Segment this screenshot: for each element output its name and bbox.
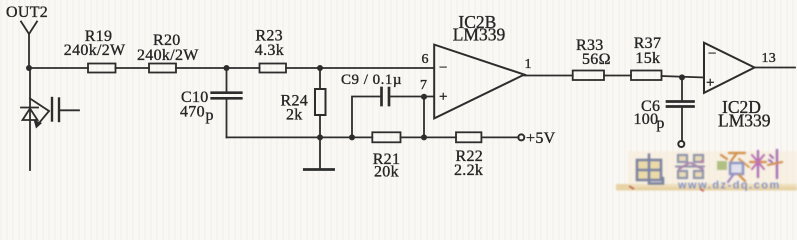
svg-text:LM339: LM339: [453, 25, 506, 45]
svg-text:LM339: LM339: [718, 111, 771, 131]
svg-text:4.3k: 4.3k: [255, 42, 284, 59]
svg-text:1: 1: [525, 57, 532, 72]
svg-text:13: 13: [762, 51, 777, 66]
svg-text:www.dz-dq.com: www.dz-dq.com: [677, 180, 781, 192]
svg-text:15k: 15k: [635, 50, 660, 67]
svg-text:+: +: [439, 89, 448, 105]
svg-text:240k/2W: 240k/2W: [64, 42, 126, 59]
svg-text:56Ω: 56Ω: [582, 51, 611, 68]
svg-text:2.2k: 2.2k: [454, 162, 483, 179]
svg-text:100: 100: [634, 111, 659, 128]
svg-text:+5V: +5V: [526, 130, 556, 147]
svg-text:6: 6: [422, 52, 429, 67]
svg-text:OUT2: OUT2: [6, 4, 48, 21]
svg-text:2k: 2k: [286, 107, 303, 124]
svg-text:+: +: [706, 75, 715, 91]
svg-text:p: p: [656, 115, 664, 132]
svg-text:240k/2W: 240k/2W: [137, 47, 199, 64]
svg-text:p: p: [206, 107, 214, 124]
svg-text:470: 470: [180, 104, 205, 121]
svg-text:7: 7: [420, 78, 427, 93]
svg-text:−: −: [708, 46, 717, 62]
svg-text:C9 / 0.1µ: C9 / 0.1µ: [341, 72, 402, 88]
svg-text:20k: 20k: [374, 164, 399, 181]
svg-text:−: −: [439, 60, 448, 76]
